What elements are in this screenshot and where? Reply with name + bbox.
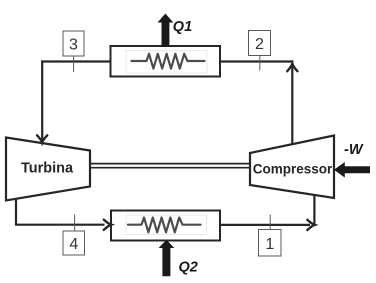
arrowhead into turbine (open style, pointing down) (37, 135, 47, 142)
svg-text:Turbina: Turbina (21, 161, 74, 177)
svg-text:Q2: Q2 (179, 259, 198, 275)
svg-text:4: 4 (69, 236, 78, 253)
node 1 label box (259, 230, 282, 257)
resistor symbol inside HX1 (132, 54, 205, 69)
node 4 tick mark on bottom wire (74, 215, 76, 232)
node 2 label box (249, 31, 271, 56)
arrowhead at top of riser (open style, pointing up) (287, 64, 297, 72)
wire: bottom wire, HX2 right to corner below compressor (220, 224, 310, 226)
arrowhead at bottom-right corner junction (open style, pointing right) (307, 220, 314, 230)
svg-text:3: 3 (69, 37, 78, 54)
shaft (double line) between turbine and compressor (91, 164, 250, 168)
wire: turbine outlet drop to bottom wire (16, 199, 105, 225)
wire: top wire, HX1 right to corner above compressor (220, 60, 293, 62)
wire: vertical rise from bottom-right corner into compressor inlet (313, 195, 315, 226)
heat flow arrow Q2 (thick, upward into HX2) (159, 240, 175, 277)
heat flow arrow Q1 (thick, upward out of HX1) (158, 14, 174, 48)
turbine T1 (Turbina) (6, 138, 90, 201)
compressor K1 (250, 136, 334, 199)
wire: right vertical riser from compressor outlet up to top wire (291, 64, 293, 145)
node 3 tick mark on top wire (73, 56, 75, 72)
arrowhead into HX2 left (open style, pointing right) (104, 220, 111, 230)
svg-text:Compressor: Compressor (253, 162, 333, 177)
work input arrow -W (thick, leftward into compressor) (334, 162, 370, 178)
node 2 tick mark on top wire (259, 56, 261, 71)
label -W (344, 142, 364, 158)
svg-text:Q1: Q1 (173, 19, 192, 35)
node 3 label box (63, 31, 84, 56)
svg-text:2: 2 (255, 36, 264, 53)
wire: left vertical drop from corner into turbine inlet (41, 60, 43, 140)
heat exchanger HX1 (top, Q1 rejection) (111, 46, 221, 77)
node 1 tick mark on bottom wire (269, 215, 271, 231)
label Q1 (173, 19, 192, 35)
svg-text:1: 1 (265, 236, 274, 253)
heat exchanger HX2 (bottom, Q2 absorption) (111, 211, 220, 241)
label Q2 (179, 259, 198, 275)
svg-text:-W: -W (344, 142, 364, 158)
resistor symbol inside HX2 (128, 218, 201, 233)
wire: top wire, HX1 left to corner above node 3 (41, 60, 110, 62)
node 4 label box (63, 231, 85, 255)
